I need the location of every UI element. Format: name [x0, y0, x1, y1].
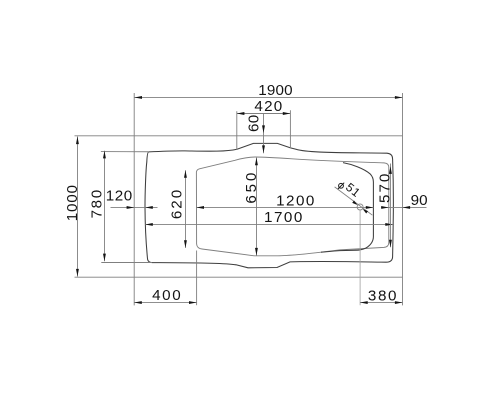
dimension 1900 line: [134, 96, 402, 98]
dimension 1000 line: [76, 137, 78, 277]
svg-text:90: 90: [411, 192, 428, 209]
dimension 780 line: [103, 151, 105, 261]
svg-text:51: 51: [343, 180, 363, 200]
dimension 570 line: [389, 164, 391, 248]
drain hole circle: [357, 204, 363, 210]
svg-text:1200: 1200: [276, 192, 316, 209]
rim inner contour with headrest bump: [145, 143, 393, 267]
diameter symbol of drain label: [338, 183, 344, 189]
dimension 420 line: [237, 113, 291, 115]
dimension 420 extension lines: [237, 110, 291, 149]
svg-text:570: 570: [376, 172, 393, 203]
dimension 380 line: [360, 302, 402, 304]
dimension 400 line: [134, 302, 196, 304]
outer rim rectangle bottom edge (extended left for 1000 dim): [75, 276, 403, 278]
svg-text:1700: 1700: [264, 209, 304, 226]
svg-text:60: 60: [246, 115, 263, 132]
dimension 400 extension line (opening left edge extended down): [196, 251, 198, 306]
svg-text:650: 650: [243, 170, 260, 204]
svg-text:120: 120: [106, 188, 133, 205]
svg-text:1000: 1000: [64, 184, 81, 221]
dimension 1700 line: [145, 223, 393, 225]
svg-text:380: 380: [368, 287, 398, 304]
dimension 60 line with two down arrows: [263, 114, 265, 154]
dimension 650 line: [255, 158, 257, 256]
dimension 90 line (arrows outside): [381, 206, 427, 208]
dimension 620 line: [184, 170, 186, 248]
basin floor contour (deep end): [321, 163, 373, 253]
svg-text:620: 620: [168, 188, 185, 219]
dimension 780 extension lines: [101, 152, 152, 263]
basin opening contour: [196, 157, 388, 256]
svg-text:420: 420: [254, 98, 283, 115]
outer rim rectangle top edge (extended left for 1000 dim): [75, 135, 403, 137]
dimension 120 line (arrows outside): [111, 206, 158, 208]
outer rim rectangle left edge (extended up for 1900, down for 400 dim): [133, 93, 135, 305]
drain leader line: [335, 187, 373, 215]
svg-text:780: 780: [88, 188, 105, 218]
dimension 1200 line: [196, 206, 373, 208]
outer rim rectangle right edge (extended up for 1900, down for 380 dim): [402, 93, 404, 305]
svg-text:1900: 1900: [258, 82, 293, 99]
drain leader arrowheads: [352, 201, 368, 214]
svg-text:400: 400: [152, 287, 182, 304]
drain center extension line (to 380 dim): [359, 211, 361, 306]
